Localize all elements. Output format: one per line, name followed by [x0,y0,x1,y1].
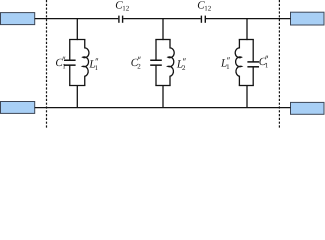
svg-text:1: 1 [226,63,230,71]
wire top bus segment 1 [35,18,119,20]
svg-text:12: 12 [204,5,212,13]
svg-text:12: 12 [122,5,130,13]
svg-text:2: 2 [137,63,141,71]
capacitor C12 (second, series) [201,16,205,23]
wire resonator 2 top stem [162,19,164,40]
wire resonator 1 top stem [76,19,78,40]
wire resonator 2 box top [155,39,170,41]
wire resonator 2 bottom stem [162,86,164,108]
label C1" (resonator 1) [55,57,66,71]
wire resonator 1 bottom stem [76,86,78,108]
svg-text:2: 2 [182,64,186,72]
wire top bus segment 2 [123,18,201,20]
port P1 (top-left) [1,13,35,25]
svg-text:1: 1 [95,64,99,72]
reference plane right (dashed) [278,0,280,128]
wire resonator 1 box top [69,39,85,41]
label C2" (resonator 2) [131,57,142,71]
wire resonator 2 box bottom [155,85,170,87]
reference plane left (dashed) [46,0,48,128]
wire resonator 1 box bottom [69,85,85,87]
wire bottom bus [35,107,291,109]
port P2 (top-right) [291,12,325,25]
capacitor C12 (first, series) [119,16,123,23]
label L1" (resonator 3) [220,57,230,71]
port P3 (bottom-left) [1,102,35,114]
capacitor C1" (resonator 3 shunt) [247,40,259,86]
inductor L2" (resonator 2 shunt) [168,40,174,86]
wire resonator 3 bottom stem [246,86,248,108]
label L2" (resonator 2) [176,58,186,72]
capacitor C1" (resonator 1 shunt) [64,40,76,86]
label C1" (resonator 3) [259,56,269,70]
label C12 (first) [115,0,129,13]
wire resonator 3 box top [239,39,254,41]
port P4 (bottom-right) [291,102,325,114]
wire resonator 3 box bottom [239,85,254,87]
capacitor C2" (resonator 2 shunt) [150,40,162,86]
inductor L1" (resonator 1 shunt) [83,40,89,86]
label C12 (second) [197,0,211,13]
inductor L1" (resonator 3 shunt, mirrored) [235,40,241,86]
svg-text:1: 1 [62,63,66,71]
wire resonator 3 top stem [246,19,248,40]
svg-text:1: 1 [265,62,269,70]
label L1" (resonator 1) [88,58,98,72]
wire top bus segment 3 [206,18,291,20]
